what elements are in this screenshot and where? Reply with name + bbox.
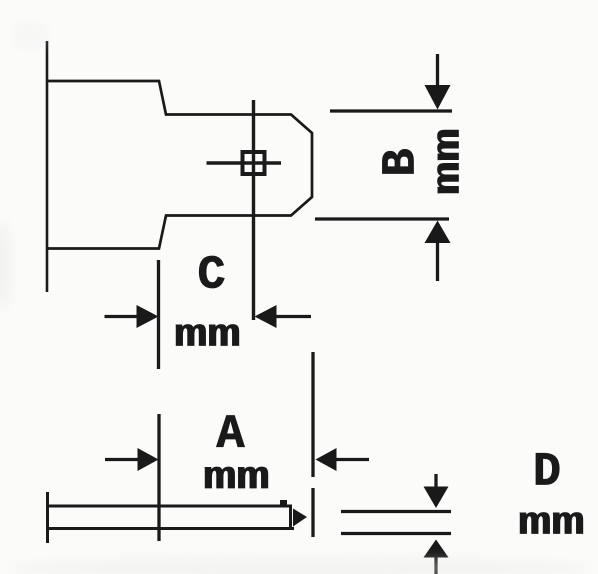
blade tip base line bbox=[289, 505, 292, 529]
dimension C left arrow line bbox=[105, 315, 143, 318]
blade left cap line bbox=[46, 492, 49, 543]
dimension A right arrowhead bbox=[316, 448, 337, 471]
arm profile outline bbox=[47, 81, 312, 249]
dimension B up arrow line bbox=[436, 241, 439, 281]
faint scan smudge bottom band bbox=[10, 559, 590, 574]
dimension B bottom extension line bbox=[315, 217, 449, 220]
blade bottom edge bbox=[47, 527, 294, 530]
svg-text:mm: mm bbox=[518, 502, 584, 546]
hole square bbox=[243, 152, 265, 174]
dimension D top extension line bbox=[341, 510, 451, 513]
dimension C left extension line bbox=[157, 260, 160, 369]
dimension D up arrow line bbox=[434, 556, 437, 574]
faint scan smudge top-left bbox=[12, 21, 48, 49]
blade tip point bbox=[293, 509, 307, 527]
blade top edge bbox=[47, 505, 292, 508]
dimension A left arrow line bbox=[105, 458, 142, 461]
dimension A right arrow line bbox=[334, 458, 369, 461]
dimension C right arrow line bbox=[272, 315, 311, 318]
wall line bbox=[46, 41, 49, 292]
dimension A right extension line lower bbox=[311, 488, 314, 537]
dimension C right arrowhead bbox=[255, 305, 277, 328]
svg-text:A: A bbox=[216, 409, 245, 462]
hole center horizontal line bbox=[207, 161, 282, 165]
dimension C left arrowhead bbox=[137, 305, 159, 328]
dimension A right extension line upper bbox=[311, 352, 314, 477]
svg-text:mm: mm bbox=[203, 456, 269, 500]
svg-text:B: B bbox=[376, 148, 429, 176]
hole center vertical line bbox=[252, 100, 255, 320]
faint scan smudge left edge bbox=[0, 220, 9, 310]
dimension D bottom extension line bbox=[341, 532, 451, 535]
dimension D up arrowhead bbox=[424, 540, 449, 558]
dimension B down arrow line bbox=[436, 54, 439, 88]
dimension A left extension line bbox=[157, 414, 160, 541]
svg-text:C: C bbox=[197, 250, 225, 303]
dimension B top extension line bbox=[330, 109, 452, 112]
svg-text:mm: mm bbox=[427, 128, 471, 194]
blade tip bump bbox=[280, 500, 287, 507]
svg-text:D: D bbox=[533, 447, 561, 500]
dimension D down arrowhead bbox=[424, 487, 449, 509]
svg-text:mm: mm bbox=[174, 314, 240, 358]
dimension A left arrowhead bbox=[138, 448, 159, 471]
dimension B down arrowhead bbox=[425, 85, 451, 110]
dimension B up arrowhead bbox=[425, 221, 451, 244]
dimension D down arrow line bbox=[434, 474, 437, 492]
